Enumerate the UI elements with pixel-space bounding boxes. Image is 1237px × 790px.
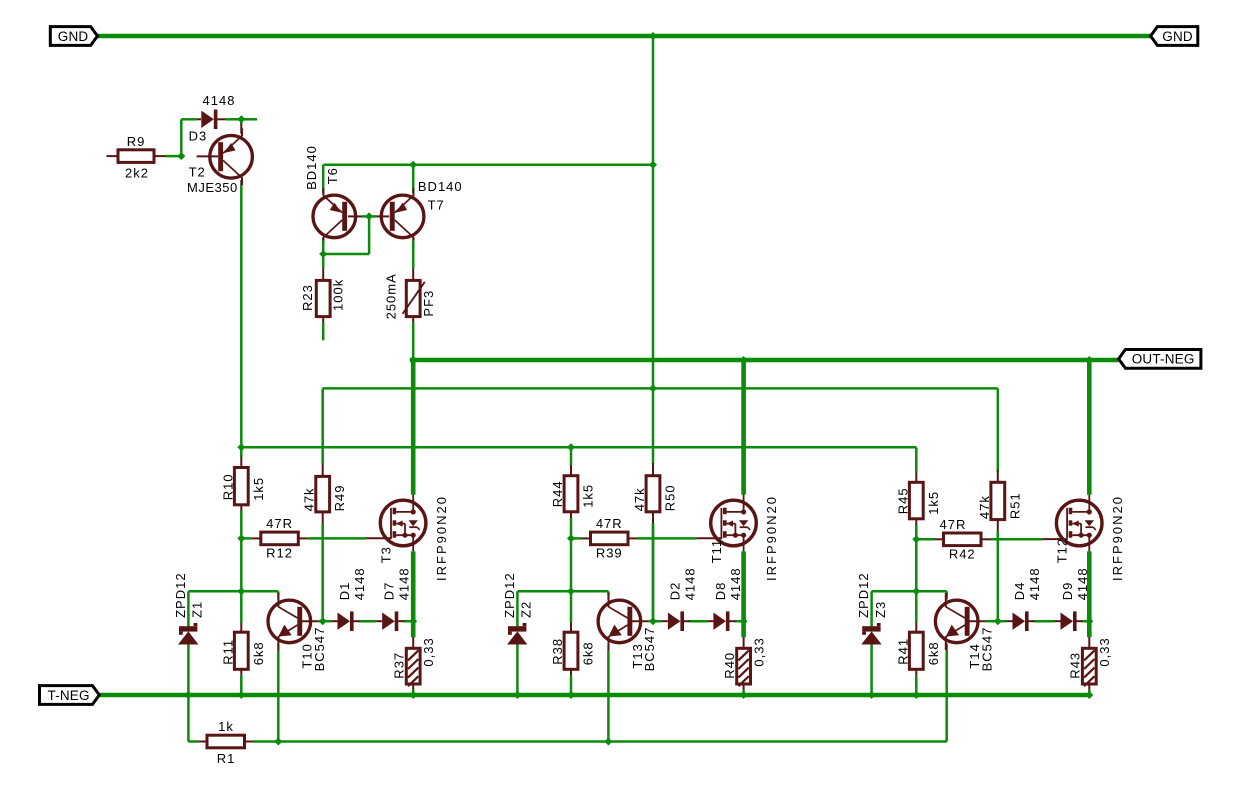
svg-text:ZPD12: ZPD12 <box>502 572 517 617</box>
wire T10 base to junction <box>318 620 322 623</box>
wire PF3 to OUT-NEG <box>412 323 415 358</box>
resistor R10 <box>220 457 265 511</box>
svg-text:1k5: 1k5 <box>251 477 266 501</box>
svg-text:R49: R49 <box>332 485 347 512</box>
wire T2 collector to line A <box>240 185 243 447</box>
svg-text:R37: R37 <box>391 652 406 679</box>
svg-text:R42: R42 <box>949 546 976 561</box>
junction D8 cathode / R40 <box>740 617 748 625</box>
resistor R41 <box>895 623 941 676</box>
svg-text:0,33: 0,33 <box>751 637 766 666</box>
resistor R4047R <box>571 516 638 561</box>
junction T2 emitter node <box>237 115 245 123</box>
wire R9 to D3/T2 node <box>166 119 197 156</box>
wire R44 column <box>570 447 573 695</box>
svg-text:BC547: BC547 <box>312 627 327 672</box>
svg-text:Z2: Z2 <box>519 601 534 618</box>
svg-text:2k2: 2k2 <box>125 166 149 181</box>
junction R40 T-NEG <box>740 691 748 699</box>
junction GND bus x=653 <box>649 32 657 40</box>
svg-text:GND: GND <box>58 29 89 44</box>
resistor R50 <box>632 463 678 523</box>
svg-text:0,33: 0,33 <box>1097 637 1112 666</box>
transistor T11 (IRFP90N20) <box>709 495 779 581</box>
resistor R9 <box>107 134 167 180</box>
junction D7 cathode / R37 <box>409 617 417 625</box>
transistor T2 <box>187 124 252 196</box>
junction GND rail x=653 y=165 <box>649 161 657 169</box>
junction Z2 T-NEG <box>513 691 521 699</box>
junction R45 node row <box>912 587 920 595</box>
svg-text:D8: D8 <box>713 582 728 601</box>
wire T10 emitter to R1 rail <box>277 651 280 742</box>
wire T6/T7 emitter rail y=165 <box>323 165 653 193</box>
wire T11 drain from OUT-NEG <box>741 358 746 495</box>
resistor R1 <box>198 719 253 766</box>
junction R41 T-NEG <box>912 691 920 699</box>
junction T6/T7 bases <box>365 212 373 220</box>
svg-text:R38: R38 <box>550 638 565 665</box>
wire R40 to T-NEG <box>742 690 745 696</box>
wire Z1 column <box>188 591 241 695</box>
wire T14 base to junction <box>986 620 998 623</box>
wire T3 source to R37 <box>411 551 416 637</box>
wire node row <box>241 591 278 594</box>
wire T12 drain from OUT-NEG <box>1087 358 1092 495</box>
resistor R38 <box>550 623 596 676</box>
zener diode Z2 <box>502 572 534 644</box>
zener diode Z1 <box>173 572 205 644</box>
wire gate to MOSFET <box>308 537 392 540</box>
svg-text:T6: T6 <box>325 167 340 184</box>
junction T13 emitter / R1 rail <box>604 738 612 746</box>
svg-text:R23: R23 <box>300 284 315 311</box>
resistor R23 <box>300 268 346 322</box>
svg-text:47k: 47k <box>302 487 317 511</box>
junction R10 node row <box>237 587 245 595</box>
junction T10 emitter / R1 rail <box>274 738 282 746</box>
resistor R49 <box>302 464 348 524</box>
wire diode row <box>323 620 414 623</box>
resistor R51 <box>977 470 1023 531</box>
wire R50 column <box>652 523 655 621</box>
wire R45 column <box>915 447 918 695</box>
svg-text:4148: 4148 <box>397 567 412 600</box>
svg-text:D3: D3 <box>189 129 208 144</box>
junction R44 node row <box>567 587 575 595</box>
wire T14 emitter to R1 rail <box>945 651 948 742</box>
wire R1 rail <box>188 695 946 742</box>
wire D3 cathode to T2 emitter node <box>226 119 257 124</box>
svg-text:R39: R39 <box>596 545 623 560</box>
svg-text:D7: D7 <box>382 582 397 601</box>
svg-text:47R: 47R <box>266 516 293 531</box>
junction R9/T2 base node <box>177 152 185 160</box>
svg-text:T11: T11 <box>709 539 724 563</box>
svg-text:R50: R50 <box>663 484 678 511</box>
svg-text:R40: R40 <box>722 652 737 679</box>
transistor T10 <box>268 593 327 672</box>
svg-text:D9: D9 <box>1060 582 1075 601</box>
svg-text:R43: R43 <box>1068 652 1083 679</box>
wire diode row <box>653 620 744 623</box>
svg-text:R41: R41 <box>895 638 910 665</box>
svg-text:4148: 4148 <box>682 567 697 600</box>
wire R51 column <box>997 388 1000 621</box>
fuse PF3 <box>384 268 437 322</box>
svg-text:47k: 47k <box>977 495 992 519</box>
svg-text:R9: R9 <box>127 134 146 149</box>
junction R45 gate node <box>912 535 920 543</box>
svg-text:Z1: Z1 <box>190 601 205 618</box>
svg-text:Z3: Z3 <box>873 601 888 618</box>
svg-text:OUT-NEG: OUT-NEG <box>1132 352 1195 367</box>
wire line A (1k5 rail) <box>241 446 916 449</box>
resistor R40 (0,33) <box>722 637 767 690</box>
svg-text:6k8: 6k8 <box>581 641 596 665</box>
wire gate bus line B <box>323 387 998 390</box>
svg-text:R11: R11 <box>220 639 235 665</box>
svg-text:PF3: PF3 <box>421 290 436 317</box>
junction line A / R44 <box>567 443 575 451</box>
junction Z3 T-NEG <box>868 691 876 699</box>
svg-text:T12: T12 <box>1055 538 1070 563</box>
wire T3 drain from OUT-NEG <box>411 358 416 495</box>
svg-text:D4: D4 <box>1012 582 1027 601</box>
net flag GND right <box>1151 27 1198 46</box>
resistor R43 (0,33) <box>1068 637 1113 690</box>
junction T-NEG / R1 left riser <box>184 691 192 699</box>
wire T7 collector to PF3 <box>412 240 415 268</box>
wire R43 to T-NEG <box>1088 690 1091 696</box>
svg-text:R10: R10 <box>220 473 235 500</box>
svg-text:D1: D1 <box>337 582 352 601</box>
junction T10 base / R49 / D1 <box>319 617 327 625</box>
junction OUT-NEG / T12 drain <box>1085 356 1093 364</box>
svg-text:BC547: BC547 <box>980 627 995 672</box>
svg-text:T2: T2 <box>189 165 206 180</box>
svg-text:R44: R44 <box>550 480 565 507</box>
net flag GND left <box>50 27 97 46</box>
resistor R45 <box>895 472 941 525</box>
svg-text:0,33: 0,33 <box>421 637 436 666</box>
svg-text:1k5: 1k5 <box>926 491 941 515</box>
wire gate to MOSFET <box>991 538 1068 541</box>
wire R23 stub <box>322 323 325 341</box>
svg-text:6k8: 6k8 <box>251 641 266 665</box>
resistor R37 (0,33) <box>391 637 436 690</box>
svg-text:ZPD12: ZPD12 <box>856 572 871 617</box>
wire R37 to T-NEG <box>412 690 415 696</box>
svg-text:BD140: BD140 <box>304 145 319 190</box>
svg-text:4148: 4148 <box>1027 567 1042 600</box>
transistor T3 (IRFP90N20) <box>379 495 449 581</box>
junction line B x=653 <box>649 384 657 392</box>
transistor T14 <box>935 593 994 672</box>
junction R37 T-NEG <box>409 691 417 699</box>
junction R10 gate node <box>237 534 245 542</box>
diode D2 <box>662 567 697 631</box>
wire diode row <box>998 620 1090 623</box>
wire R49 column <box>321 388 324 621</box>
diode D9 <box>1055 567 1090 631</box>
svg-text:T3: T3 <box>379 546 394 563</box>
junction T14 base / R51 / D4 <box>994 617 1002 625</box>
resistor R4347R <box>916 517 990 562</box>
svg-text:4148: 4148 <box>728 567 743 600</box>
junction T7 emitter <box>409 161 417 169</box>
svg-text:R51: R51 <box>1007 492 1022 519</box>
junction R38 T-NEG <box>567 691 575 699</box>
resistor R44 <box>550 465 596 518</box>
wire T6 collector node <box>322 240 325 268</box>
net flag T-NEG <box>40 686 100 705</box>
diode D3 <box>189 93 236 143</box>
svg-text:D2: D2 <box>667 582 682 601</box>
svg-text:1k5: 1k5 <box>581 484 596 508</box>
svg-text:R1: R1 <box>217 751 236 766</box>
svg-text:MJE350: MJE350 <box>187 180 238 195</box>
svg-text:T7: T7 <box>428 197 445 212</box>
transistor T13 <box>598 593 657 672</box>
junction R11 T-NEG <box>237 691 245 699</box>
diode D7 <box>376 567 411 631</box>
svg-text:1k: 1k <box>218 719 234 734</box>
zener diode Z3 <box>856 572 888 644</box>
diode D4 <box>1007 567 1042 631</box>
svg-text:BC547: BC547 <box>642 627 657 672</box>
svg-text:R45: R45 <box>895 487 910 514</box>
wire gate to MOSFET <box>638 537 723 540</box>
net flag OUT-NEG <box>1119 350 1201 369</box>
svg-text:IRFP90N20: IRFP90N20 <box>1110 495 1125 581</box>
svg-text:100k: 100k <box>331 279 346 311</box>
svg-text:47R: 47R <box>596 516 623 531</box>
svg-text:4148: 4148 <box>203 93 236 108</box>
wire T13 emitter to R1 rail <box>607 651 610 742</box>
wire T12 source to R43 <box>1087 551 1092 637</box>
junction T13 base / R50 / D2 <box>649 617 657 625</box>
wire T13 base to junction <box>648 620 653 623</box>
svg-text:BD140: BD140 <box>418 179 463 194</box>
diode D1 <box>332 567 367 631</box>
transistor T12 (IRFP90N20) <box>1055 495 1125 581</box>
wire T6/T7 base tie <box>323 216 376 254</box>
junction Z1 T-NEG <box>184 691 192 699</box>
wire T11 source to R40 <box>741 551 746 637</box>
junction R43 T-NEG <box>1085 691 1093 699</box>
svg-text:6k8: 6k8 <box>926 641 941 665</box>
transistor T7 <box>377 179 463 245</box>
svg-text:ZPD12: ZPD12 <box>173 572 188 617</box>
svg-text:250mA: 250mA <box>384 273 399 319</box>
junction OUT-NEG / T3 drain <box>409 356 417 364</box>
wire Z3 column <box>872 591 917 695</box>
svg-text:T-NEG: T-NEG <box>47 688 89 703</box>
wire T-NEG bus <box>99 693 1089 698</box>
wire GND bus <box>98 34 1152 39</box>
wire node row <box>916 591 946 594</box>
svg-text:47R: 47R <box>940 517 967 532</box>
junction D9 cathode / R43 <box>1085 617 1093 625</box>
wire GND vertical drop x=653 <box>652 36 655 621</box>
diode D8 <box>707 567 742 631</box>
svg-text:R12: R12 <box>266 545 293 560</box>
svg-text:4148: 4148 <box>352 567 367 600</box>
junction T6 collector / R23 <box>319 250 327 258</box>
junction OUT-NEG / T11 drain <box>740 356 748 364</box>
resistor R3747R <box>241 516 307 561</box>
wire OUT-NEG bus <box>410 358 1119 363</box>
svg-text:47k: 47k <box>632 487 647 511</box>
wire node row <box>571 591 608 594</box>
svg-text:IRFP90N20: IRFP90N20 <box>764 495 779 581</box>
wire Z2 column <box>517 591 571 695</box>
svg-text:GND: GND <box>1162 29 1193 44</box>
junction line A / R10 <box>237 443 245 451</box>
resistor R11 <box>220 623 265 676</box>
svg-text:IRFP90N20: IRFP90N20 <box>434 495 449 581</box>
transistor T6 <box>304 145 362 245</box>
wire R10 column <box>240 447 243 695</box>
junction R44 gate node <box>567 534 575 542</box>
